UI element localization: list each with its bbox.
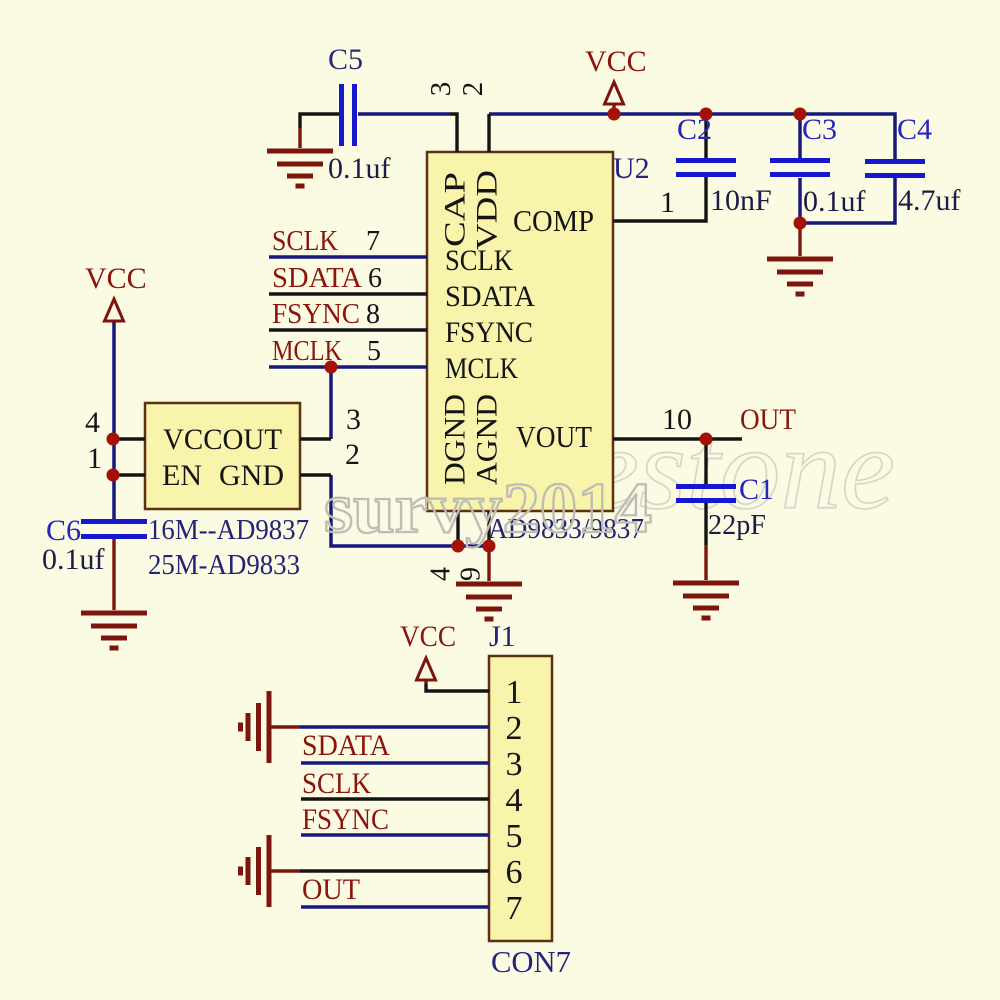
- svg-text:2: 2: [506, 710, 523, 747]
- svg-text:VDD: VDD: [471, 170, 504, 250]
- svg-text:VCC: VCC: [400, 620, 456, 653]
- svg-text:C3: C3: [802, 113, 837, 146]
- svg-text:4: 4: [506, 782, 523, 819]
- svg-text:9: 9: [456, 567, 487, 581]
- svg-text:5: 5: [367, 336, 381, 367]
- svg-text:10nF: 10nF: [710, 184, 772, 217]
- svg-text:6: 6: [368, 263, 382, 294]
- svg-text:C1: C1: [739, 473, 774, 506]
- svg-text:6: 6: [506, 854, 523, 891]
- svg-text:SCLK: SCLK: [302, 767, 371, 800]
- svg-text:7: 7: [506, 890, 523, 927]
- svg-text:4: 4: [85, 406, 100, 439]
- svg-text:1: 1: [506, 674, 523, 711]
- svg-text:3: 3: [506, 746, 523, 783]
- svg-text:2: 2: [345, 438, 360, 471]
- svg-text:16M--AD9837: 16M--AD9837: [148, 514, 309, 546]
- svg-text:GND: GND: [219, 459, 284, 492]
- svg-text:5: 5: [506, 818, 523, 855]
- svg-text:4.7uf: 4.7uf: [898, 184, 961, 217]
- svg-text:0.1uf: 0.1uf: [328, 152, 391, 185]
- svg-text:J1: J1: [489, 620, 516, 653]
- svg-text:OUT: OUT: [302, 873, 360, 906]
- svg-text:FSYNC: FSYNC: [302, 803, 389, 836]
- svg-text:22pF: 22pF: [708, 509, 766, 541]
- svg-text:VCCOUT: VCCOUT: [163, 423, 282, 456]
- svg-text:survy2014: survy2014: [324, 468, 652, 548]
- svg-text:10: 10: [662, 403, 692, 436]
- svg-text:C5: C5: [328, 43, 363, 76]
- svg-text:C4: C4: [897, 113, 932, 146]
- svg-text:CON7: CON7: [491, 944, 571, 979]
- svg-text:8: 8: [366, 299, 380, 330]
- svg-text:CAP: CAP: [439, 172, 472, 247]
- svg-text:C2: C2: [677, 113, 712, 146]
- svg-text:COMP: COMP: [513, 203, 594, 238]
- svg-text:SDATA: SDATA: [272, 263, 363, 294]
- svg-text:VCC: VCC: [85, 262, 147, 295]
- svg-text:2: 2: [457, 82, 489, 97]
- svg-text:MCLK: MCLK: [445, 352, 518, 385]
- svg-text:7: 7: [366, 226, 380, 257]
- svg-text:MCLK: MCLK: [272, 336, 342, 367]
- svg-text:SDATA: SDATA: [445, 280, 535, 313]
- svg-text:25M-AD9833: 25M-AD9833: [148, 549, 300, 581]
- svg-text:1: 1: [87, 442, 102, 475]
- svg-text:3: 3: [346, 403, 361, 436]
- svg-text:SDATA: SDATA: [302, 729, 390, 762]
- svg-text:OUT: OUT: [740, 403, 796, 436]
- svg-text:3: 3: [425, 82, 457, 97]
- svg-text:U2: U2: [613, 152, 650, 185]
- svg-text:EN: EN: [162, 459, 202, 492]
- svg-text:SCLK: SCLK: [272, 226, 338, 257]
- svg-text:4: 4: [426, 567, 457, 581]
- svg-text:FSYNC: FSYNC: [445, 316, 533, 349]
- svg-text:VOUT: VOUT: [516, 419, 592, 454]
- svg-text:0.1uf: 0.1uf: [42, 543, 105, 576]
- svg-text:1: 1: [660, 186, 675, 219]
- svg-text:FSYNC: FSYNC: [272, 299, 360, 330]
- svg-text:0.1uf: 0.1uf: [803, 185, 866, 218]
- svg-text:VCC: VCC: [585, 45, 647, 78]
